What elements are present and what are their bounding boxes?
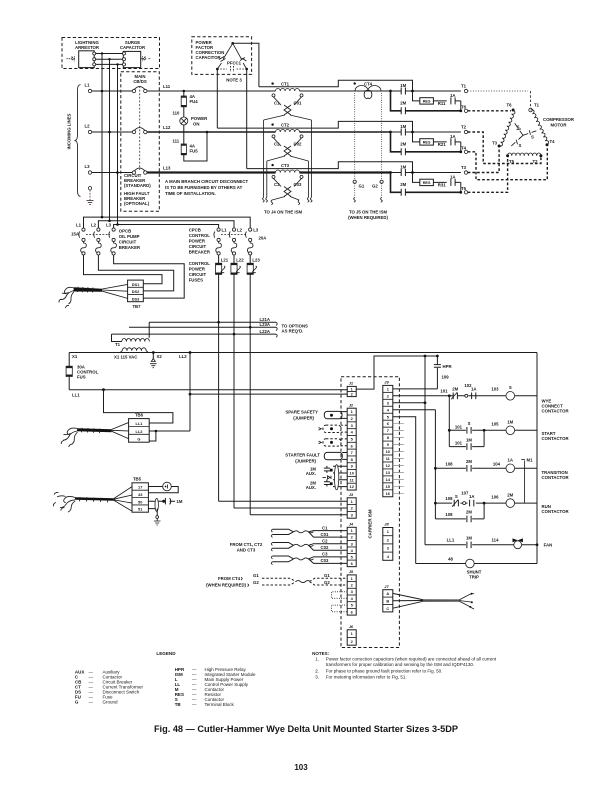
lightning arrestor / surge capacitor dashed enclosure: [62, 38, 160, 69]
svg-text:—: —: [192, 702, 197, 707]
svg-text:OIL PUMP: OIL PUMP: [119, 234, 140, 239]
svg-text:POWER: POWER: [189, 267, 206, 272]
contactor coil 2M (run): [506, 499, 515, 508]
svg-text:R11: R11: [438, 101, 446, 106]
svg-text:C02: C02: [321, 545, 329, 550]
wire L22 vertical feeder: [233, 274, 235, 508]
svg-text:108: 108: [445, 496, 453, 501]
svg-text:1A: 1A: [450, 93, 456, 98]
svg-text:A: A: [386, 591, 389, 596]
wire J9 pin2 to node 101: [393, 395, 450, 397]
svg-text:DS2: DS2: [132, 289, 140, 294]
breaker pole 2: [132, 130, 135, 133]
svg-text:L2: L2: [91, 223, 97, 228]
cable loop marker at J2 aux: [334, 465, 338, 490]
svg-text:S: S: [519, 143, 522, 148]
wire J3 pin2 feed from L22: [234, 507, 347, 509]
svg-text:B: B: [386, 598, 389, 603]
wire 2M branch vertical: [391, 91, 402, 111]
fuse FU5: [181, 144, 186, 155]
wire L13 continuation to starter block: [300, 171, 391, 173]
svg-text:Ground: Ground: [103, 699, 119, 704]
svg-text:OPCB: OPCB: [119, 229, 131, 234]
svg-text:L2: L2: [237, 228, 243, 233]
svg-text:(JUMPER): (JUMPER): [293, 415, 314, 420]
wire dashed T4 to motor: [468, 147, 548, 180]
lightning arrestor ground lead symbol: [67, 56, 75, 61]
coil shunt trip: [466, 559, 475, 568]
power on light: [180, 117, 188, 125]
svg-text:TRIP: TRIP: [469, 575, 479, 580]
svg-text:S: S: [517, 124, 520, 129]
fan motor symbol: [514, 541, 522, 549]
svg-text:C01: C01: [321, 532, 329, 537]
surge capacitor SC1 body: [123, 51, 140, 67]
svg-text:FU5: FU5: [190, 149, 199, 154]
transformer T1 secondary: [120, 348, 148, 353]
svg-text:50: 50: [138, 499, 142, 504]
svg-text:LL2: LL2: [135, 429, 143, 434]
svg-text:T5: T5: [509, 159, 515, 164]
svg-text:2M: 2M: [400, 182, 406, 187]
svg-text:FROM CT4: FROM CT4: [218, 576, 241, 581]
svg-text:CAPACITOR: CAPACITOR: [196, 55, 222, 60]
svg-text:TO J5 ON THE ISM: TO J5 ON THE ISM: [349, 210, 388, 215]
svg-text:AND CT3: AND CT3: [237, 548, 256, 553]
svg-text:G1: G1: [253, 573, 259, 578]
wire CT2 secondary pair with twist: [274, 138, 302, 146]
svg-text:1A: 1A: [508, 458, 514, 463]
svg-text:FUS: FUS: [77, 375, 86, 380]
svg-text:2M: 2M: [400, 142, 406, 147]
svg-text:1M: 1M: [400, 124, 406, 129]
svg-text:1M: 1M: [507, 420, 513, 425]
svg-text:TB6: TB6: [135, 413, 144, 418]
svg-text:1.: 1.: [315, 657, 319, 662]
svg-text:FU4: FU4: [190, 99, 199, 104]
svg-text:A MAIN BRANCH CIRCUIT DISCONNE: A MAIN BRANCH CIRCUIT DISCONNECT: [165, 179, 249, 184]
motor terminal T6: [512, 109, 515, 112]
terminal T5: [464, 191, 467, 194]
svg-text:CONTACTOR: CONTACTOR: [542, 509, 570, 514]
svg-text:TB7: TB7: [132, 304, 141, 309]
svg-text:Terminal Block: Terminal Block: [205, 702, 235, 707]
CPCB mechanical link: [221, 234, 247, 236]
wire LL1 bus to TB6: [104, 390, 173, 423]
svg-text:L13: L13: [163, 166, 171, 171]
svg-text:AS REQ'D.: AS REQ'D.: [282, 329, 304, 334]
wire PFCC phase A parallel run: [259, 80, 413, 91]
svg-text:TB: TB: [175, 702, 182, 707]
svg-text:L3: L3: [253, 228, 259, 233]
jumper dashed J2 5-6: [341, 439, 347, 446]
svg-text:DS1: DS1: [132, 282, 140, 287]
svg-text:S: S: [531, 135, 534, 140]
svg-text:DS3: DS3: [132, 296, 140, 301]
svg-text:(STANDARD): (STANDARD): [124, 183, 151, 188]
svg-text:114: 114: [492, 538, 500, 543]
wire RES branch: [413, 173, 461, 183]
svg-text:LL2: LL2: [179, 354, 187, 359]
svg-text:(OPTIONAL): (OPTIONAL): [124, 201, 150, 206]
oil pump circuit breaker OPCB pole 1: [82, 228, 85, 231]
svg-text:Power factor correction capaci: Power factor correction capacitors (when…: [326, 657, 497, 662]
svg-text:C03: C03: [321, 558, 329, 563]
wire L2 row: [92, 131, 133, 133]
resistor RES R21: [420, 139, 434, 145]
svg-text:L12: L12: [163, 125, 171, 130]
svg-text:X1 115 VAC: X1 115 VAC: [114, 355, 137, 360]
svg-text:Fig. 48 — Cutler-Hammer Wye De: Fig. 48 — Cutler-Hammer Wye Delta Unit M…: [154, 724, 458, 734]
wye contact S right: [523, 130, 536, 135]
wire 2M branch vertical: [391, 173, 402, 193]
node phase block T3: [389, 171, 392, 174]
wire G1 dashed drop from CT4: [354, 93, 356, 180]
svg-text:ARRESTOR: ARRESTOR: [75, 45, 100, 50]
svg-text:C: C: [386, 606, 389, 611]
svg-text:LL1: LL1: [447, 538, 455, 543]
shielded pair CT3 to J4: [273, 556, 294, 562]
motor terminal T1: [529, 108, 533, 112]
svg-text:R21: R21: [438, 142, 446, 147]
svg-text:IS TO BE FURNISHED BY OTHERS A: IS TO BE FURNISHED BY OTHERS AT: [165, 185, 243, 190]
motor winding T5-T2: [508, 153, 541, 156]
wire phase C drop from arrestor: [117, 64, 119, 224]
svg-text:1M: 1M: [400, 164, 406, 169]
svg-text:104: 104: [493, 461, 501, 466]
svg-text:FROM CT1, CT2: FROM CT1, CT2: [230, 542, 263, 547]
dotted jumper J5 3-4: [332, 592, 348, 599]
svg-text:T1: T1: [115, 342, 121, 347]
svg-text:TB5: TB5: [133, 477, 142, 482]
node phase block T2: [389, 131, 392, 134]
svg-text:7: 7: [351, 450, 353, 455]
svg-text:L22A: L22A: [259, 329, 270, 334]
svg-text:2M: 2M: [400, 101, 406, 106]
wire LL1 bus: [69, 389, 348, 391]
svg-text:LL1: LL1: [72, 393, 80, 398]
resistor RES R31: [420, 179, 434, 185]
svg-text:G1: G1: [324, 573, 330, 578]
ground symbol below G: [89, 190, 91, 200]
wire dashed T1 to motor: [468, 90, 528, 92]
svg-text:(WHEN REQUIRED): (WHEN REQUIRED): [348, 215, 388, 220]
fuse L22: [233, 255, 235, 263]
svg-text:FUSES: FUSES: [189, 278, 203, 283]
svg-text:ON: ON: [193, 122, 199, 127]
svg-text:2M: 2M: [466, 510, 472, 515]
terminal block TB7: [128, 280, 144, 302]
svg-text:C1: C1: [322, 525, 328, 530]
motor winding T1-T4: [531, 109, 550, 145]
svg-text:107: 107: [461, 490, 469, 495]
cable harness to TB5: [75, 497, 114, 501]
svg-text:L11: L11: [163, 84, 171, 89]
wire dashed T2 to motor: [468, 132, 541, 164]
svg-text:LL1: LL1: [135, 421, 143, 426]
svg-text:T4: T4: [550, 139, 556, 144]
svg-text:S: S: [509, 385, 512, 390]
svg-text:1M: 1M: [466, 536, 472, 541]
motor terminal T2: [539, 154, 542, 157]
terminal T1: [464, 89, 467, 92]
ground at TB5: [156, 509, 158, 516]
fuse FU 30A control: [68, 353, 70, 367]
svg-text:CARRIER ISM: CARRIER ISM: [368, 509, 373, 538]
svg-text:NOTES:: NOTES:: [312, 651, 330, 656]
breaker pole 1: [132, 89, 135, 92]
svg-text:1M: 1M: [466, 437, 472, 442]
svg-text:(WHEN REQUIRED): (WHEN REQUIRED): [206, 582, 246, 587]
terminal T3: [464, 171, 467, 174]
svg-text:1M: 1M: [177, 499, 183, 504]
terminal G2: [380, 180, 383, 183]
wire ladder right rail: [536, 353, 538, 564]
svg-text:CT1: CT1: [281, 81, 290, 86]
svg-text:CB/DS: CB/DS: [133, 79, 147, 84]
svg-text:COMPRESSOR: COMPRESSOR: [543, 117, 575, 122]
svg-text:POWER: POWER: [189, 239, 206, 244]
svg-text:INCOMING LINES: INCOMING LINES: [67, 113, 72, 149]
oil pump circuit breaker OPCB pole 3: [112, 228, 115, 231]
svg-text:T3: T3: [492, 141, 498, 146]
wire J1 pin2 feed: [190, 393, 348, 395]
svg-text:1M: 1M: [400, 83, 406, 88]
wire J9 pin4 to node 108 rail: [393, 409, 436, 411]
wire PFCC1 phase C drop: [246, 69, 248, 169]
mechanical link M1: [524, 461, 526, 504]
high pressure relay contact HPR: [436, 356, 438, 389]
svg-text:CPCB: CPCB: [189, 228, 201, 233]
capacitor PFCC1 delta symbol: [217, 43, 246, 69]
wire L3 row: [92, 172, 133, 174]
wire phase A drop from arrestor: [101, 54, 103, 218]
wire 2M branch vertical: [391, 132, 402, 152]
wire L23 vertical feeder: [249, 274, 251, 514]
svg-text:CAPACITOR: CAPACITOR: [120, 45, 146, 50]
svg-text:G1: G1: [359, 184, 365, 189]
svg-text:CIRCUIT: CIRCUIT: [119, 240, 137, 245]
wire G2 dashed drop from CT4: [381, 93, 383, 180]
wire PFCC phase B parallel run: [217, 121, 412, 132]
wire PFCC1 phase A tap: [233, 43, 259, 87]
svg-text:G2: G2: [324, 580, 330, 585]
resistor RES R11: [420, 98, 434, 104]
wire L21 vertical feeder: [218, 274, 220, 501]
jumper dashed J2 3-4: [341, 425, 347, 432]
node dots on arrestor wires: [101, 52, 103, 54]
fuse L23: [249, 255, 251, 263]
wire PFCC1 phase B drop: [216, 69, 218, 128]
svg-text:X1: X1: [72, 354, 78, 359]
contactor coil 1A (transition): [506, 464, 515, 473]
svg-text:SPARE SAFETY: SPARE SAFETY: [285, 409, 318, 414]
wire CT3 secondary pair with twist: [274, 178, 302, 186]
svg-text:110: 110: [173, 111, 181, 116]
wire CT1 secondary pair with twist: [274, 97, 302, 105]
svg-text:L23: L23: [252, 258, 260, 263]
svg-text:R31: R31: [438, 183, 446, 188]
svg-text:108: 108: [445, 461, 453, 466]
shielded pair CT2 to J4: [273, 543, 294, 549]
wire J9 pin1 to HPR: [393, 388, 438, 390]
wire dashed T3 to motor: [468, 148, 499, 173]
svg-text:2M: 2M: [507, 492, 513, 497]
wire RES branch: [413, 132, 461, 142]
svg-text:3.: 3.: [315, 674, 319, 679]
wire L11 continuation to starter block: [300, 90, 391, 92]
svg-text:L3: L3: [85, 164, 91, 169]
svg-text:17: 17: [138, 485, 142, 490]
node phase block T1: [389, 90, 392, 93]
wire dashed T5 to motor: [468, 158, 508, 193]
cable harness at J7: [393, 593, 423, 608]
svg-text:T2: T2: [461, 125, 467, 130]
svg-text:2M: 2M: [452, 387, 458, 392]
wire L22A option tap: [112, 333, 277, 335]
svg-text:MOTOR: MOTOR: [551, 123, 568, 128]
svg-text:STARTER FAULT: STARTER FAULT: [285, 453, 320, 458]
power factor correction capacitor PFCC1 dashed enclosure: [192, 37, 252, 75]
svg-text:FAN: FAN: [544, 543, 553, 548]
wire J9 pin3 to fan riser: [393, 402, 425, 404]
wire OPCB pole2 to TB7 DS2: [98, 255, 173, 291]
surge capacitor ground lead symbol: [141, 56, 151, 61]
wire J3 pin1 feed from L21: [219, 500, 348, 502]
svg-text:RES: RES: [423, 141, 431, 145]
svg-text:10: 10: [350, 471, 354, 476]
current transformer CT1: [271, 82, 273, 84]
oil pump circuit breaker OPCB pole 2: [97, 228, 100, 231]
terminal T6: [464, 109, 467, 112]
svg-text:RES: RES: [423, 100, 431, 104]
auxiliary contact 1M at TB5: [148, 501, 162, 508]
wire L23A option tap: [129, 326, 276, 328]
wire arrestor to capacitor row2: [96, 58, 123, 60]
wire dashed T6 to motor: [468, 110, 511, 112]
svg-text:S: S: [468, 421, 471, 426]
svg-text:G2: G2: [253, 580, 259, 585]
motor terminal T4: [546, 143, 549, 146]
current transformer CT4 (ground fault): [354, 82, 356, 84]
wire L1 row: [92, 90, 133, 92]
svg-text:CONTROL: CONTROL: [189, 261, 211, 266]
svg-text:48: 48: [448, 556, 453, 561]
svg-text:106: 106: [491, 495, 499, 500]
terminal T2: [464, 130, 467, 133]
incoming lines brace: [75, 85, 81, 197]
wire L21A option tap: [149, 321, 276, 323]
contactor coil 1M (start): [506, 426, 515, 435]
svg-text:AUX.: AUX.: [306, 485, 316, 490]
wye contact S lower: [511, 135, 523, 146]
svg-text:T1: T1: [461, 84, 467, 89]
wire RES branch: [413, 91, 461, 101]
svg-text:1A: 1A: [469, 494, 475, 499]
svg-text:T4: T4: [461, 145, 467, 150]
svg-text:L3: L3: [106, 223, 112, 228]
svg-text:POWER: POWER: [191, 116, 208, 121]
svg-text:103: 103: [491, 387, 499, 392]
svg-text:CONTROL: CONTROL: [189, 233, 211, 238]
svg-text:L21: L21: [221, 258, 229, 263]
svg-text:7: 7: [387, 428, 389, 433]
svg-text:10: 10: [386, 449, 390, 454]
svg-text:CIRCUIT: CIRCUIT: [189, 244, 207, 249]
wire OPCB pole3 to TB7 DS3: [114, 255, 185, 298]
contactor coil S (wye connect): [506, 392, 515, 401]
svg-text:108: 108: [445, 512, 453, 517]
svg-text:(JUMPER): (JUMPER): [295, 459, 316, 464]
control power circuit breaker CPCB pole 2: [232, 228, 235, 231]
cable harness to TB6: [77, 428, 112, 432]
svg-text:101: 101: [455, 441, 463, 446]
svg-text:CONTACTOR: CONTACTOR: [542, 436, 570, 441]
svg-text:PFCC1: PFCC1: [227, 61, 242, 66]
svg-text:CT2: CT2: [281, 122, 290, 127]
svg-text:111: 111: [173, 139, 180, 144]
svg-text:transformers for proper calibr: transformers for proper calibration and …: [326, 662, 474, 667]
svg-text:105: 105: [491, 422, 499, 427]
svg-text:L1: L1: [222, 228, 228, 233]
svg-text:15A: 15A: [71, 232, 79, 237]
wye contact S upper: [515, 123, 523, 135]
svg-text:T6: T6: [506, 103, 512, 108]
cable harness to TB7: [74, 287, 103, 292]
svg-text:1A: 1A: [471, 387, 477, 392]
svg-text:L1: L1: [85, 83, 91, 88]
svg-text:S: S: [455, 494, 458, 499]
svg-text:C2: C2: [322, 539, 328, 544]
svg-text:1A: 1A: [450, 174, 456, 179]
svg-text:For phase to phase ground faul: For phase to phase ground fault protecti…: [326, 668, 443, 673]
svg-text:101: 101: [440, 388, 448, 393]
svg-text:T5: T5: [461, 186, 467, 191]
terminal G: [88, 187, 91, 190]
X1 control line: [69, 352, 537, 354]
terminal block TB6: [129, 419, 150, 443]
svg-text:CONTACTOR: CONTACTOR: [542, 408, 570, 413]
svg-text:1A: 1A: [450, 134, 456, 139]
terminal block TB5: [132, 483, 148, 512]
shielded pair CT1 to J4: [273, 529, 294, 534]
wire TB6 LL2 to LL2 vertical: [149, 430, 190, 432]
control bus phase A: [84, 217, 251, 228]
svg-text:RES: RES: [423, 181, 431, 185]
wire TB6 G jumper: [149, 431, 156, 441]
svg-text:J1: J1: [349, 381, 353, 386]
control power circuit breaker CPCB pole 3: [249, 228, 252, 231]
svg-text:TO J4 ON THE ISM: TO J4 ON THE ISM: [264, 210, 303, 215]
breaker pole 3: [132, 171, 135, 174]
wire OPCB pole1 to TB7 DS1: [84, 255, 163, 284]
svg-text:For metering information refer: For metering information refer to Fig. 5…: [326, 674, 407, 679]
current transformer CT2: [271, 123, 273, 125]
svg-text:C3: C3: [322, 552, 328, 557]
svg-text:LEGEND: LEGEND: [156, 651, 176, 656]
motor winding T6-T3: [499, 110, 516, 147]
svg-text:L22: L22: [236, 258, 244, 263]
motor terminal T5: [506, 154, 509, 157]
svg-text:2M: 2M: [466, 459, 472, 464]
wire arrestor to capacitor row3: [96, 63, 123, 65]
svg-text:AUX.: AUX.: [306, 471, 316, 476]
J9 stub wires pins 6-16: [393, 424, 404, 494]
control bus phase C: [114, 225, 219, 229]
wire node 101 vertical: [448, 394, 451, 397]
svg-text:—: —: [89, 699, 94, 704]
terminal G1: [353, 180, 356, 183]
